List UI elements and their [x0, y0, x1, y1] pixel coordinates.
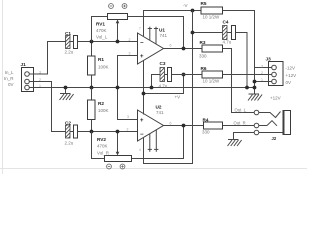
svg-text:RV2: RV2 [97, 137, 106, 142]
wire C1 to U1 pin2 [78, 41, 138, 43]
node dot R2 bottom [90, 130, 94, 134]
wire RV1 left terminal [92, 17, 108, 42]
wire U2 noninverting input to 0V [118, 88, 138, 120]
svg-text:0V: 0V [286, 80, 292, 85]
svg-text:10 1/2W: 10 1/2W [203, 79, 221, 84]
wire C1 plates joint [70, 41, 74, 43]
svg-text:−: − [140, 132, 144, 138]
wire C2 to U2 pin2 [78, 131, 138, 133]
svg-text:+: + [140, 118, 144, 124]
resistor R2 [88, 88, 96, 132]
wire vertical B -12V feed to U2 [144, 11, 193, 164]
svg-text:J3: J3 [266, 57, 272, 62]
svg-text:6: 6 [170, 122, 172, 126]
potentiometer RV2 [105, 132, 132, 169]
resistor R5 [201, 7, 223, 14]
svg-text:3: 3 [129, 52, 131, 56]
capacitor C3 [160, 68, 172, 82]
svg-text:R4: R4 [203, 118, 209, 123]
wire In_L from J1 pin3 to C1 [34, 42, 66, 75]
svg-text:Out_L: Out_L [235, 108, 247, 113]
node dot RV1 wiper [116, 40, 120, 44]
svg-text:741: 741 [160, 33, 168, 38]
svg-text:2: 2 [127, 128, 129, 132]
svg-text:2: 2 [129, 38, 131, 42]
canvas border bottom [0, 168, 307, 170]
svg-text:+12V: +12V [286, 73, 297, 78]
svg-text:4: 4 [139, 148, 141, 152]
svg-text:741: 741 [156, 110, 164, 115]
svg-text:470K: 470K [96, 28, 107, 33]
node dot U2 output feedback [182, 124, 186, 128]
svg-text:C3: C3 [160, 61, 166, 66]
wire U1 power column [143, 61, 145, 115]
svg-text:J2: J2 [272, 136, 277, 141]
svg-text:+V: +V [175, 95, 181, 100]
resistor R4 [204, 122, 223, 129]
svg-text:7: 7 [139, 27, 141, 31]
wire R3 right to Out_L [223, 49, 255, 113]
svg-text:C2: C2 [65, 121, 71, 126]
svg-text:3: 3 [261, 65, 263, 69]
node dot ground tap [64, 86, 68, 90]
svg-text:330: 330 [202, 130, 210, 135]
svg-text:R1: R1 [98, 57, 104, 62]
svg-text:In_R: In_R [4, 76, 14, 81]
svg-text:10 1/2W: 10 1/2W [203, 15, 221, 20]
svg-text:R6: R6 [201, 66, 207, 71]
svg-text:100K: 100K [98, 65, 109, 70]
wire C3 right to R6 and J3 pin2 [172, 74, 269, 76]
svg-text:J1: J1 [21, 62, 27, 67]
wire C4 plates joint [227, 32, 232, 34]
node dot op-amp + inputs on 0V rail [116, 86, 120, 90]
node dot +V tee [142, 92, 146, 96]
capacitor C2 [66, 125, 78, 138]
resistor R6 [202, 71, 223, 78]
svg-text:100K: 100K [98, 108, 109, 113]
wire U2 output [164, 125, 255, 127]
svg-text:U2: U2 [156, 105, 162, 110]
node dot C4 on vertical B [191, 31, 195, 35]
svg-text:330: 330 [199, 54, 207, 59]
op-amp U2 [138, 110, 164, 152]
svg-text:−: − [140, 41, 144, 47]
svg-text:2.2u: 2.2u [65, 141, 74, 146]
wire RV2 left terminal [92, 132, 105, 159]
svg-text:4.7u: 4.7u [159, 84, 168, 89]
op-amp U1 [138, 27, 164, 64]
resistor R1 [88, 42, 96, 88]
capacitor C4 [223, 26, 236, 40]
svg-text:Vol_L: Vol_L [96, 35, 108, 40]
resistor R3 [202, 45, 223, 52]
jack J2 [254, 110, 290, 135]
svg-text:4.7u: 4.7u [223, 40, 232, 45]
wire C3 plates joint [165, 74, 168, 76]
svg-text:-12V: -12V [286, 66, 296, 71]
wire C4 right down to 0V [236, 33, 248, 88]
node dot C4 on 0V rail [245, 86, 249, 90]
svg-text:6: 6 [170, 44, 172, 48]
svg-text:0V: 0V [8, 82, 14, 87]
wire In_R from J1 pin2 to C2 [34, 82, 66, 132]
svg-text:R3: R3 [200, 40, 206, 45]
capacitor C1 [66, 36, 78, 49]
wire C3 left to 0V [152, 75, 161, 88]
svg-text:C1: C1 [65, 31, 71, 36]
svg-text:+: + [140, 54, 144, 60]
wire U1 output [164, 48, 203, 50]
wire J2 sleeve to ground [234, 133, 255, 140]
wire C2 plates joint [70, 131, 74, 133]
connector J1 [22, 68, 34, 92]
potentiometer RV1 [108, 4, 128, 42]
node dot -V rail [191, 9, 195, 13]
wire 0V rail [34, 87, 255, 89]
svg-text:+12V: +12V [270, 96, 281, 101]
wire J3 pin1 to 0V rail [255, 81, 269, 83]
node dot C3 right tap [182, 73, 186, 77]
connector J3 [269, 62, 284, 86]
node dot R1 top [90, 40, 94, 44]
wire U1 noninverting input to 0V [118, 56, 138, 88]
svg-text:R2: R2 [98, 101, 104, 106]
svg-text:2.2u: 2.2u [65, 50, 74, 55]
svg-text:Vol_R: Vol_R [97, 151, 110, 156]
node dot U1 output feedback [182, 47, 186, 51]
node dot C3 left on rail [150, 86, 154, 90]
svg-text:U1: U1 [159, 28, 165, 33]
wire C4 left to -V [193, 32, 223, 34]
svg-text:3: 3 [127, 115, 129, 119]
svg-text:C4: C4 [223, 20, 229, 25]
svg-text:Out_R: Out_R [234, 121, 246, 126]
ground G2 [248, 86, 262, 101]
node dot R1/R2 on 0V rail [90, 86, 94, 90]
wire RV2 right terminal feedback [132, 126, 184, 159]
ground G3 [228, 140, 242, 147]
node dot RV2 wiper [116, 130, 120, 134]
svg-text:RV1: RV1 [96, 22, 105, 27]
svg-text:470K: 470K [97, 144, 108, 149]
svg-text:2: 2 [261, 71, 263, 75]
svg-text:-V: -V [183, 3, 188, 8]
ground G1 [60, 88, 74, 101]
canvas border left [2, 0, 4, 174]
wire RV1 right terminal feedback [128, 17, 184, 49]
svg-text:R5: R5 [201, 1, 207, 6]
wire -V rail top [144, 11, 255, 88]
wire +V rail [144, 75, 184, 94]
svg-text:In_L: In_L [5, 70, 14, 75]
